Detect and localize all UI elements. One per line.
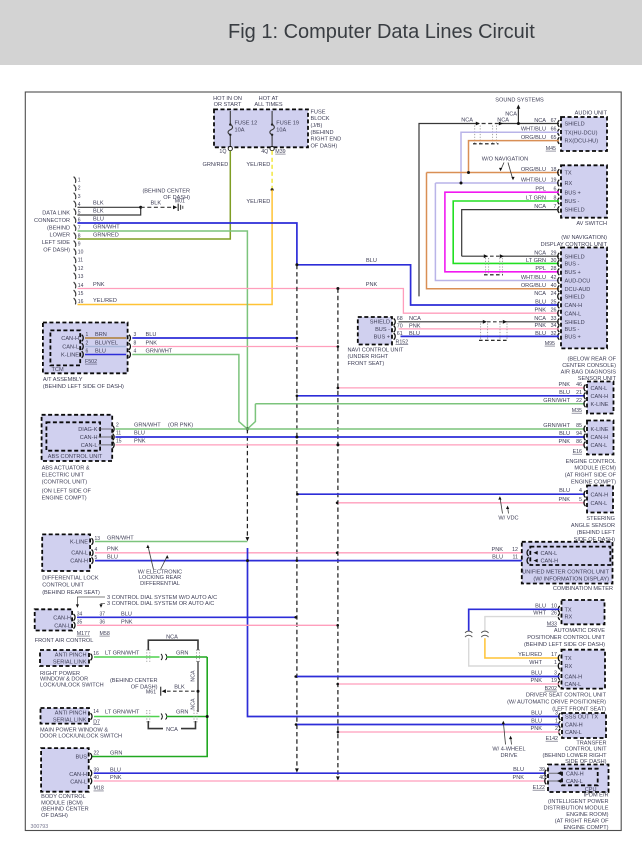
svg-text:W/O NAVIGATION: W/O NAVIGATION xyxy=(482,156,528,162)
wire BLU positioner TX xyxy=(469,609,560,631)
svg-text:(OR PNK): (OR PNK) xyxy=(168,422,193,428)
svg-text:K-LINE: K-LINE xyxy=(591,402,609,408)
svg-text:K-LINE: K-LINE xyxy=(61,353,79,359)
control dial system leaders xyxy=(77,597,105,605)
junction CAN-H ABS xyxy=(295,436,298,439)
svg-text:TCM: TCM xyxy=(52,367,64,373)
svg-text:AUDIO UNIT: AUDIO UNIT xyxy=(575,110,608,116)
svg-text:CAN-L: CAN-L xyxy=(565,730,582,736)
wire BLK dashed to ground M01 xyxy=(141,206,173,208)
ABS outer box xyxy=(42,415,113,461)
AV pin 8 xyxy=(558,198,560,205)
svg-text:BLU/YEL: BLU/YEL xyxy=(95,341,118,347)
svg-text:GRN/WHT: GRN/WHT xyxy=(543,398,570,404)
junction K-line xyxy=(246,428,249,431)
svg-text:SERIAL LINK: SERIAL LINK xyxy=(53,659,87,665)
title bar xyxy=(0,0,642,65)
svg-text:(BELOW REAR OF: (BELOW REAR OF xyxy=(568,356,617,362)
transfer pin 3 xyxy=(559,713,561,720)
ECM pin 94 xyxy=(584,434,586,441)
wire WHT positioner RX xyxy=(485,617,560,631)
svg-text:CAN-H: CAN-H xyxy=(70,559,88,565)
junction WHT/BLU xyxy=(460,182,463,185)
svg-text:F502: F502 xyxy=(85,359,97,365)
svg-text:RIGHT END: RIGHT END xyxy=(311,137,342,143)
connector pass-through marks on audio lines xyxy=(474,126,476,144)
svg-text:POSITIONER CONTROL UNIT: POSITIONER CONTROL UNIT xyxy=(527,635,605,641)
svg-text:K-LINE: K-LINE xyxy=(70,540,88,546)
TCM pin CAN-H xyxy=(82,335,84,342)
svg-text:CENTER CONSOLE): CENTER CONSOLE) xyxy=(562,363,616,369)
wire BLU/YEL TCM 2 xyxy=(85,346,126,348)
svg-text:PNK: PNK xyxy=(121,619,133,625)
anti pinch serial link 2 box xyxy=(41,708,90,724)
front air pin CAN-H xyxy=(74,614,76,621)
svg-text:DISTRIBUTION MODULE: DISTRIBUTION MODULE xyxy=(544,805,609,811)
svg-text:NCA: NCA xyxy=(534,291,546,297)
svg-text:M18: M18 xyxy=(94,786,104,792)
svg-text:11: 11 xyxy=(116,430,121,436)
svg-text:BUS -: BUS - xyxy=(375,327,390,333)
diff lock pin 4 xyxy=(92,550,94,557)
svg-text:M35: M35 xyxy=(572,408,582,414)
svg-text:(INTELLIGENT POWER: (INTELLIGENT POWER xyxy=(548,799,609,805)
svg-text:AV SWITCH: AV SWITCH xyxy=(576,221,607,227)
combination meter outer box xyxy=(522,542,613,584)
svg-text:2: 2 xyxy=(86,341,89,347)
svg-text:BLK: BLK xyxy=(93,208,104,214)
svg-text:BUS +: BUS + xyxy=(565,270,581,276)
svg-text:(W/ AUTOMATIC DRIVE POSITIONER: (W/ AUTOMATIC DRIVE POSITIONER) xyxy=(507,700,606,706)
transfer control unit box xyxy=(562,713,606,738)
svg-text:40: 40 xyxy=(551,283,557,289)
wire PNK ABS CAN-L to ECM xyxy=(115,444,585,446)
svg-text:ORG/BLU: ORG/BLU xyxy=(521,167,546,173)
svg-text:PNK: PNK xyxy=(530,678,542,684)
svg-text:DIFFERENTIAL: DIFFERENTIAL xyxy=(140,581,180,587)
junction GRN anti pinch 2 xyxy=(206,715,209,718)
svg-text:24: 24 xyxy=(551,291,557,297)
NCA shield bracket 2 xyxy=(148,721,163,729)
meter pin 12 xyxy=(527,550,529,557)
svg-text:BLU: BLU xyxy=(110,767,121,773)
svg-text:2: 2 xyxy=(78,186,81,192)
wire PNK front air CAN-L xyxy=(77,624,338,626)
wire PNK transfer CAN-L xyxy=(338,731,560,733)
front air control box xyxy=(35,609,72,630)
ABS pin 11 xyxy=(113,434,115,441)
svg-text:CAN-L: CAN-L xyxy=(81,443,98,449)
svg-text:35: 35 xyxy=(77,619,83,625)
display pin 30 xyxy=(558,260,560,267)
svg-text:29: 29 xyxy=(551,251,557,257)
svg-text:ENGINE ROOM): ENGINE ROOM) xyxy=(566,812,608,818)
svg-text:FUSE 19: FUSE 19 xyxy=(276,121,299,127)
svg-text:36: 36 xyxy=(100,619,106,625)
junction ORG/BLU xyxy=(467,171,470,174)
svg-text:(BEHIND LEFT SIDE OF DASH): (BEHIND LEFT SIDE OF DASH) xyxy=(43,384,124,390)
meter pin 11 xyxy=(527,557,529,564)
TCM inner box xyxy=(50,330,80,365)
svg-text:22: 22 xyxy=(576,398,582,404)
seat pin 1 xyxy=(558,663,560,670)
svg-text:NCA: NCA xyxy=(166,727,178,733)
wire BLU A/T CAN-H to bus xyxy=(132,337,297,339)
svg-text:CAN-L: CAN-L xyxy=(541,551,558,557)
svg-text:13: 13 xyxy=(78,274,84,280)
svg-text:E142: E142 xyxy=(546,736,558,742)
svg-text:MODULE (ECM): MODULE (ECM) xyxy=(574,466,616,472)
svg-text:BUS: BUS xyxy=(75,755,87,761)
anti pinch serial link 1 box xyxy=(40,650,89,666)
svg-text:NCA: NCA xyxy=(534,251,546,257)
svg-text:21: 21 xyxy=(576,390,582,396)
audio unit box xyxy=(561,117,607,151)
svg-text:12: 12 xyxy=(512,547,518,553)
BCM box xyxy=(41,748,89,792)
svg-text:2: 2 xyxy=(116,422,119,428)
transfer pin 2 xyxy=(559,729,561,736)
svg-text:(J/B): (J/B) xyxy=(311,123,323,129)
svg-text:(BEHIND REAR SEAT): (BEHIND REAR SEAT) xyxy=(42,590,100,596)
svg-text:40: 40 xyxy=(539,775,545,781)
svg-text:SHIELD: SHIELD xyxy=(565,122,585,128)
wire PNK driver seat CAN-L xyxy=(338,683,560,685)
wire GRN anti pinch 2 xyxy=(167,716,208,718)
svg-text:CAN-H: CAN-H xyxy=(591,394,609,400)
svg-text:1: 1 xyxy=(86,332,89,338)
svg-text:4: 4 xyxy=(134,349,137,355)
junction shield drain xyxy=(197,690,200,693)
svg-text:25: 25 xyxy=(551,299,557,305)
svg-text:PNK: PNK xyxy=(110,775,122,781)
svg-text:PNK: PNK xyxy=(512,775,524,781)
front air pin CAN-L xyxy=(74,622,76,629)
svg-text:GRN/WHT: GRN/WHT xyxy=(134,422,161,428)
wire PNK steering CAN-L xyxy=(337,502,585,504)
svg-text:E122: E122 xyxy=(533,785,545,791)
svg-text:3: 3 xyxy=(134,332,137,338)
svg-text:8: 8 xyxy=(134,341,137,347)
svg-text:M39: M39 xyxy=(275,149,285,155)
dashed K-line NCA vertical xyxy=(246,429,248,538)
AV pin 6 xyxy=(558,189,560,196)
seat pin 19 xyxy=(558,681,560,688)
wire YEL/RED dashed upper segment from fuse 19 xyxy=(271,151,273,190)
driver seat control unit box xyxy=(562,650,606,689)
svg-text:BLU: BLU xyxy=(559,488,570,494)
wire GRN vertical to BCM xyxy=(92,657,208,757)
svg-text:AIR BAG DIAGNOSIS: AIR BAG DIAGNOSIS xyxy=(561,370,617,376)
svg-text:ENGINE COMPT): ENGINE COMPT) xyxy=(42,495,87,501)
junction CAN-L bus top xyxy=(336,287,339,290)
svg-text:W/ 4-WHEEL: W/ 4-WHEEL xyxy=(492,746,525,752)
svg-text:ORG/BLU: ORG/BLU xyxy=(521,283,546,289)
svg-text:ENGINE CONTROL: ENGINE CONTROL xyxy=(566,459,616,465)
svg-text:(AT RIGHT REAR OF: (AT RIGHT REAR OF xyxy=(555,818,609,824)
wire PNK DLC pin 14 to CAN-L bus xyxy=(78,288,338,290)
seat pin 3 xyxy=(558,673,560,680)
svg-text:BUS -: BUS - xyxy=(565,262,580,268)
fuse block pin 1Q xyxy=(228,147,232,151)
svg-text:TX: TX xyxy=(565,607,572,613)
wire NCA navi 68 to display 33 xyxy=(399,321,482,323)
svg-text:26: 26 xyxy=(551,611,557,617)
svg-text:CONNECTOR: CONNECTOR xyxy=(34,218,70,224)
display pin 34 xyxy=(558,325,560,332)
svg-text:E16: E16 xyxy=(573,449,582,455)
svg-text:RX: RX xyxy=(565,664,573,670)
wire LT GRN/WHT anti pinch 2 xyxy=(94,716,160,718)
svg-text:SHIELD: SHIELD xyxy=(565,320,585,326)
svg-text:10: 10 xyxy=(78,250,84,256)
svg-text:GRN/WHT: GRN/WHT xyxy=(146,349,173,355)
display pin 32 xyxy=(558,333,560,340)
display pin 33 xyxy=(558,319,560,326)
svg-text:SHIELD: SHIELD xyxy=(370,320,390,326)
svg-text:19: 19 xyxy=(551,678,557,684)
A/T pin 8 xyxy=(129,343,131,350)
svg-text:RX: RX xyxy=(565,181,573,187)
svg-text:GRN/WHT: GRN/WHT xyxy=(93,224,120,230)
ECM box xyxy=(587,421,614,455)
svg-text:CAN-L: CAN-L xyxy=(591,501,608,507)
svg-text:SHIELD: SHIELD xyxy=(565,254,585,260)
svg-text:ENGINE COMPT): ENGINE COMPT) xyxy=(563,825,608,831)
connector pass-through marks AV-display xyxy=(485,258,487,275)
wire PPL AV bus+ to display xyxy=(445,192,559,272)
svg-text:46: 46 xyxy=(576,382,582,388)
svg-text:1: 1 xyxy=(554,660,557,666)
svg-text:RX(DCU-HU): RX(DCU-HU) xyxy=(565,139,599,145)
svg-text:NAVI CONTROL UNIT: NAVI CONTROL UNIT xyxy=(348,348,405,354)
svg-text:ENGINE COMPT): ENGINE COMPT) xyxy=(571,479,616,485)
svg-text:PNK: PNK xyxy=(93,282,105,288)
svg-text:OF DASH): OF DASH) xyxy=(43,248,70,254)
A/T assembly outer box xyxy=(43,323,128,374)
svg-text:3: 3 xyxy=(78,194,81,200)
wire GRN/RED from fuse 12 to DLC pin 8 xyxy=(78,151,231,239)
svg-text:BLU: BLU xyxy=(513,767,524,773)
wire BLU BCM CAN-H to IPDM xyxy=(94,772,546,774)
svg-text:LT GRN: LT GRN xyxy=(526,258,546,264)
wire YEL/RED solid to DLC pin 16 xyxy=(78,190,273,305)
fuse block (J/B) box xyxy=(214,109,308,147)
svg-text:BLU: BLU xyxy=(366,258,377,264)
svg-text:NCA: NCA xyxy=(191,698,197,710)
svg-text:BRN: BRN xyxy=(95,332,107,338)
BCM pin 39 xyxy=(90,770,92,777)
svg-text:W/ VDC: W/ VDC xyxy=(498,515,518,521)
svg-text:BLU: BLU xyxy=(134,430,145,436)
wire GRN/WHT DLC pin 7 (K-line) xyxy=(78,231,248,429)
svg-text:PNK: PNK xyxy=(534,308,546,314)
navi pin 70 xyxy=(394,326,396,333)
svg-text:ABS ACTUATOR &: ABS ACTUATOR & xyxy=(42,465,90,471)
svg-text:BLK: BLK xyxy=(93,201,104,207)
svg-text:NCA: NCA xyxy=(166,634,178,640)
svg-text:6: 6 xyxy=(86,349,89,355)
svg-text:ELECTRIC UNIT: ELECTRIC UNIT xyxy=(42,472,85,478)
AV pin 7 xyxy=(558,206,560,213)
svg-text:PNK: PNK xyxy=(134,438,146,444)
wire BLU TCM 6 xyxy=(85,354,126,356)
svg-text:PNK: PNK xyxy=(558,439,570,445)
svg-text:LEFT SIDE: LEFT SIDE xyxy=(42,240,70,246)
svg-text:YEL/RED: YEL/RED xyxy=(93,298,117,304)
wire GRN/WHT A/T K-line xyxy=(132,355,247,430)
svg-text:CAN-H: CAN-H xyxy=(591,435,609,441)
svg-text:CAN-L: CAN-L xyxy=(62,345,79,351)
svg-text:PNK: PNK xyxy=(534,323,546,329)
auto drive positioner box xyxy=(562,600,605,624)
svg-text:BUS +: BUS + xyxy=(374,334,390,340)
svg-text:10A: 10A xyxy=(276,128,286,134)
svg-text:RX: RX xyxy=(565,615,573,621)
svg-text:CAN-L: CAN-L xyxy=(565,311,582,317)
svg-text:86: 86 xyxy=(576,439,582,445)
svg-text:9: 9 xyxy=(78,242,81,248)
wire PNK air bag CAN-L xyxy=(338,387,585,389)
wire BLU ABS CAN-H to ECM xyxy=(115,436,585,438)
svg-text:(UNDER RIGHT: (UNDER RIGHT xyxy=(348,354,389,360)
svg-text:CAN-H: CAN-H xyxy=(565,303,583,309)
wire PNK diff lock CAN-L to meter xyxy=(95,552,529,554)
wire BLU air bag CAN-H xyxy=(297,395,585,397)
junction CAN-H bus top xyxy=(295,263,298,266)
svg-text:CAN-H: CAN-H xyxy=(566,771,584,777)
svg-text:30: 30 xyxy=(551,258,557,264)
svg-text:D7: D7 xyxy=(93,719,100,725)
svg-text:WHT: WHT xyxy=(533,611,546,617)
svg-text:HOT IN ON: HOT IN ON xyxy=(213,96,242,102)
AV switch box xyxy=(561,165,607,217)
svg-text:TX: TX xyxy=(565,656,572,662)
anti pinch 1 pin 16 xyxy=(91,654,93,661)
fuse 19 10A xyxy=(270,111,275,147)
A/T pin 3 xyxy=(129,335,131,342)
air bag pin 46 xyxy=(584,385,586,392)
svg-text:PNK: PNK xyxy=(107,547,119,553)
TCM pin K-LINE xyxy=(82,351,84,358)
svg-text:BLU: BLU xyxy=(93,216,104,222)
svg-text:NCA: NCA xyxy=(534,118,546,124)
svg-text:BLK: BLK xyxy=(174,685,185,691)
svg-text:R152: R152 xyxy=(396,339,409,345)
svg-text:BLU: BLU xyxy=(559,431,570,437)
svg-text:FUSE: FUSE xyxy=(311,109,326,115)
svg-text:BLOCK: BLOCK xyxy=(311,116,330,122)
svg-text:34: 34 xyxy=(551,323,557,329)
svg-text:AUTOMATIC DRIVE: AUTOMATIC DRIVE xyxy=(554,628,605,634)
svg-text:GRN/RED: GRN/RED xyxy=(93,232,119,238)
svg-text:K-LINE: K-LINE xyxy=(591,427,609,433)
wire LT GRN/WHT anti pinch 1 xyxy=(94,656,160,658)
display control unit box xyxy=(561,248,607,349)
svg-text:DRIVE: DRIVE xyxy=(500,753,517,759)
svg-text:WHT/BLU: WHT/BLU xyxy=(521,275,546,281)
svg-text:UNIFIED METER CONTROL UNIT: UNIFIED METER CONTROL UNIT xyxy=(522,570,609,576)
display pin 29 xyxy=(558,253,560,260)
fuse 12 10A xyxy=(228,111,233,147)
svg-text:FRONT SEAT): FRONT SEAT) xyxy=(348,361,385,367)
air bag pin 22 xyxy=(584,401,586,408)
svg-text:40: 40 xyxy=(94,775,100,781)
CAN-H trunk BLU to display control unit xyxy=(297,265,559,305)
svg-text:BUS +: BUS + xyxy=(565,190,581,196)
svg-text:BODY CONTROL: BODY CONTROL xyxy=(41,794,86,800)
svg-text:28: 28 xyxy=(551,266,557,272)
svg-text:300793: 300793 xyxy=(31,824,49,830)
svg-text:YEL/RED: YEL/RED xyxy=(518,652,542,658)
svg-text:YEL/RED: YEL/RED xyxy=(246,199,270,205)
svg-text:3 CONTROL DIAL SYSTEM W/O AUTO: 3 CONTROL DIAL SYSTEM W/O AUTO A/C xyxy=(107,595,217,601)
svg-text:14: 14 xyxy=(93,709,99,715)
A/T pin 4 xyxy=(129,351,131,358)
svg-text:CAN-L: CAN-L xyxy=(70,779,87,785)
svg-text:(LEFT FRONT SEAT): (LEFT FRONT SEAT) xyxy=(552,707,606,713)
wire BLU navi 61 to display 32 xyxy=(401,335,560,337)
svg-text:16: 16 xyxy=(93,651,99,657)
transfer pin 1 xyxy=(559,721,561,728)
junction SSS branch on CAN-H xyxy=(246,559,249,562)
svg-text:3: 3 xyxy=(555,711,558,717)
svg-text:4Q: 4Q xyxy=(261,149,268,155)
svg-text:FRONT AIR CONTROL: FRONT AIR CONTROL xyxy=(35,638,94,644)
svg-text:22: 22 xyxy=(94,751,100,757)
ABS pin 15 xyxy=(113,442,115,449)
svg-text:17: 17 xyxy=(551,652,557,658)
svg-text:COMBINATION METER: COMBINATION METER xyxy=(553,586,613,592)
svg-text:M61: M61 xyxy=(146,689,156,695)
wire GRN anti pinch 1 xyxy=(167,656,208,658)
diff lock pin 5 xyxy=(92,557,94,564)
navi pin 68 xyxy=(394,319,396,326)
svg-text:(BEHIND CENTER: (BEHIND CENTER xyxy=(142,188,190,194)
svg-text:(BEHIND LEFT: (BEHIND LEFT xyxy=(577,530,616,536)
dashed CAN-L bus line xyxy=(337,289,339,778)
svg-text:DIAG-K: DIAG-K xyxy=(78,427,98,433)
svg-text:PNK: PNK xyxy=(558,497,570,503)
svg-text:(BEHIND: (BEHIND xyxy=(311,130,334,136)
svg-text:CAN-H: CAN-H xyxy=(80,435,98,441)
svg-text:(BEHIND CENTER: (BEHIND CENTER xyxy=(41,807,89,813)
svg-text:PNK: PNK xyxy=(409,323,421,329)
svg-text:MODULE (BCM): MODULE (BCM) xyxy=(41,800,83,806)
svg-text:OF DASH): OF DASH) xyxy=(41,813,68,819)
svg-text:M33: M33 xyxy=(547,621,557,627)
svg-text:DCU-AUD: DCU-AUD xyxy=(565,287,591,293)
svg-text:BLU: BLU xyxy=(492,555,503,561)
svg-text:CONTROL UNIT: CONTROL UNIT xyxy=(42,583,84,589)
wire BRN TCM 1 xyxy=(85,337,126,339)
wire PNK BCM CAN-L to IPDM xyxy=(94,780,546,782)
wire PNK navi 70 to display 34 xyxy=(399,328,560,330)
svg-text:BLU: BLU xyxy=(107,554,118,560)
svg-text:A/T ASSEMBLY: A/T ASSEMBLY xyxy=(43,377,83,383)
svg-text:1: 1 xyxy=(78,178,81,184)
svg-text:YEL/RED: YEL/RED xyxy=(246,162,270,168)
audio pin 66 xyxy=(558,129,560,136)
svg-text:GRN/WHT: GRN/WHT xyxy=(543,423,570,429)
svg-text:BLU: BLU xyxy=(535,299,546,305)
svg-text:CAN-L: CAN-L xyxy=(54,623,71,629)
svg-text:WHT/BLU: WHT/BLU xyxy=(521,177,546,183)
svg-text:16: 16 xyxy=(78,299,84,305)
svg-text:WHT: WHT xyxy=(529,660,542,666)
navi control unit box xyxy=(358,317,392,345)
display pin 28 xyxy=(558,269,560,276)
